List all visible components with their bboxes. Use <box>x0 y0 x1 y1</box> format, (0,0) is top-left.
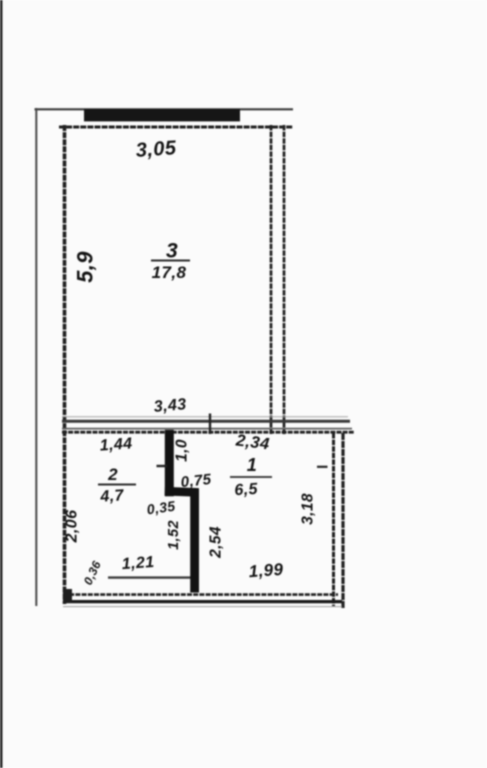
dimension tick on right wall <box>317 466 328 468</box>
svg-text:5,9: 5,9 <box>73 251 98 283</box>
corridor step line <box>108 576 192 578</box>
lower section right wall outer line <box>341 433 344 608</box>
outer wall left line <box>35 108 37 606</box>
svg-text:1,0: 1,0 <box>174 439 191 462</box>
scan edge line left <box>0 0 3 768</box>
partition wall jog <box>165 487 199 497</box>
svg-text:3,05: 3,05 <box>135 137 177 162</box>
room 3 right wall outer line <box>283 125 286 435</box>
svg-text:0,75: 0,75 <box>180 471 213 491</box>
bottom wall jagged line <box>63 593 338 596</box>
lower section right wall inner jagged line <box>332 433 335 606</box>
svg-text:3,18: 3,18 <box>300 493 317 525</box>
svg-text:1,99: 1,99 <box>248 560 284 581</box>
svg-text:2,06: 2,06 <box>64 510 81 544</box>
partition wall lower (thick black) <box>190 489 199 593</box>
svg-text:4,7: 4,7 <box>99 487 125 506</box>
room 2 fraction line <box>98 484 136 486</box>
room 3 bottom wall line c (jagged) <box>62 431 354 434</box>
partition wall upper (thick black) <box>165 430 174 497</box>
outer wall top line <box>35 108 294 110</box>
dimension tick top middle <box>209 414 211 435</box>
inner wall left jagged line <box>63 125 67 604</box>
svg-text:1,44: 1,44 <box>99 435 133 454</box>
svg-text:1: 1 <box>247 455 257 475</box>
svg-text:1,52: 1,52 <box>166 520 182 550</box>
window W1 (balcony window black bar) <box>84 109 240 121</box>
inner wall top jagged line <box>59 126 293 129</box>
svg-text:1,21: 1,21 <box>121 554 155 573</box>
wall corner blob bottom-left <box>63 589 72 603</box>
room 3 bottom wall line b <box>62 428 352 430</box>
svg-text:3,43: 3,43 <box>153 396 187 416</box>
dimension tick on partition wall <box>157 465 168 467</box>
bottom wall faint line <box>63 606 342 608</box>
svg-text:17,8: 17,8 <box>152 263 187 282</box>
room 3 right wall inner line <box>270 125 273 434</box>
room 3 fraction line <box>151 260 190 262</box>
svg-text:2,54: 2,54 <box>208 526 225 559</box>
room 3 bottom wall faint upper line <box>62 416 348 418</box>
svg-text:2: 2 <box>107 465 118 484</box>
bottom wall dark line <box>63 600 342 603</box>
room 1 fraction line <box>230 476 272 478</box>
svg-text:3: 3 <box>166 240 178 263</box>
room 3 bottom wall line a <box>62 420 350 423</box>
svg-text:6,5: 6,5 <box>234 481 259 500</box>
